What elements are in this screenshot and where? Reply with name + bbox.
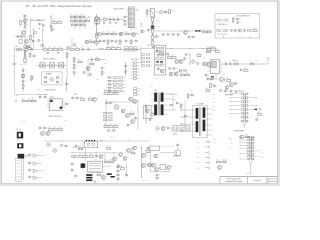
capacitor C141 — [124, 64, 129, 67]
svg-text:CN6: CN6 — [17, 138, 20, 140]
capacitor C166 — [43, 126, 48, 129]
optocoupler PC101 — [40, 64, 46, 67]
wire — [66, 78, 68, 91]
bridge D107 — [191, 59, 196, 64]
capacitor C174 — [255, 118, 260, 121]
diode D108 — [179, 69, 181, 71]
resistor R155 — [156, 64, 159, 66]
svg-text:GND: GND — [262, 157, 265, 159]
svg-text:12P: 12P — [214, 141, 216, 143]
capacitor C194 — [65, 144, 70, 147]
svg-text:C105: C105 — [158, 26, 161, 28]
svg-text:GND: GND — [230, 143, 233, 145]
transistor Q108 — [86, 67, 92, 71]
svg-text:C1 C2 C3 C4 C5: C1 C2 C3 C4 C5 — [217, 34, 227, 36]
wire — [71, 38, 73, 47]
wire — [155, 30, 212, 32]
resistor R149 — [31, 76, 35, 80]
capacitor C109 — [108, 17, 111, 21]
transistor Q110 — [179, 60, 185, 64]
resistor R143 — [70, 47, 74, 50]
capacitor C124 — [172, 33, 177, 36]
node g — [46, 64, 49, 67]
svg-text:5V: 5V — [175, 99, 177, 101]
resistor R153 — [90, 62, 94, 65]
resistor R129 — [146, 10, 150, 14]
wire — [152, 17, 154, 44]
capacitor C200 — [157, 54, 162, 57]
op-amp U101 — [220, 78, 224, 82]
transistor Q109 — [175, 60, 181, 64]
transistor Q107 — [21, 74, 27, 78]
transistor Q133 — [127, 149, 133, 153]
resistor R105 — [28, 46, 32, 49]
resistor R194 — [131, 151, 135, 154]
svg-text:RY101: RY101 — [173, 134, 177, 136]
capacitor C178 — [106, 172, 111, 175]
svg-text:12V: 12V — [175, 94, 177, 96]
op-amp U105 — [33, 176, 37, 180]
diode D109 — [184, 69, 186, 71]
resistor R159 — [186, 73, 190, 76]
transistor Q116 — [230, 83, 236, 87]
resistor R192 — [105, 160, 109, 163]
transistor Q143 — [24, 59, 27, 63]
svg-text:VOUT: VOUT — [196, 157, 200, 159]
svg-text:D102 SW: D102 SW — [147, 45, 153, 47]
transistor Q125 — [93, 98, 99, 102]
capacitor C189 — [185, 53, 190, 56]
wire — [249, 159, 253, 165]
svg-text:R102: R102 — [157, 20, 160, 22]
resistor array RA104 — [141, 54, 144, 56]
resistor R119 — [96, 34, 100, 38]
ic IC103 — [49, 99, 62, 110]
resistor R188 — [222, 160, 226, 163]
bridge D112 — [155, 126, 160, 131]
wire — [96, 19, 124, 21]
diode D103 — [56, 76, 58, 78]
resistor R112 — [76, 19, 80, 22]
transistor Q138 — [148, 163, 154, 167]
resistor R136 — [232, 18, 236, 22]
resistor R109 — [76, 15, 80, 18]
wire — [249, 97, 256, 99]
driver module M102 — [154, 45, 166, 75]
resistor R137 — [253, 28, 257, 31]
wire — [249, 108, 254, 110]
capacitor C150 — [229, 61, 232, 65]
transistor Q113 — [174, 72, 180, 76]
resistor R198 — [29, 53, 33, 57]
resistor R175 — [59, 127, 63, 130]
svg-text:VOUT: VOUT — [196, 142, 200, 144]
resistor R178 — [114, 91, 118, 94]
transistor Q141 — [154, 154, 160, 158]
resistor array RA102 — [114, 77, 118, 79]
wire — [74, 15, 76, 29]
capacitor C112 — [99, 39, 104, 42]
capacitor C133 — [81, 47, 84, 51]
resistor R132 — [152, 29, 156, 33]
wire — [168, 93, 174, 95]
capacitor C108 — [95, 40, 100, 43]
capacitor C163 — [184, 114, 189, 117]
resistor R191 — [90, 154, 94, 157]
resistor R146 — [112, 46, 116, 49]
inductor L103 — [195, 30, 197, 31]
capacitor C188 — [156, 49, 161, 52]
transistor Q144 — [85, 40, 91, 44]
capacitor C177 — [95, 154, 100, 157]
svg-text:VOUT: VOUT — [196, 147, 200, 149]
capacitor C139 — [83, 71, 88, 74]
resistor R195 — [97, 173, 101, 176]
capacitor C119 — [151, 22, 156, 25]
resistor R210 — [121, 166, 125, 169]
resistor R117 — [82, 23, 86, 26]
svg-text:R120: R120 — [88, 17, 92, 19]
capacitor C202 — [157, 68, 162, 71]
transformer T104 — [17, 143, 23, 148]
transistor Q130 — [113, 157, 119, 161]
capacitor C131 — [243, 29, 248, 32]
node j3 — [203, 56, 206, 59]
resistor R173 — [49, 127, 53, 130]
inductor L102 — [151, 26, 155, 27]
resistor R134 — [203, 30, 207, 33]
wire — [44, 140, 150, 142]
capacitor C101 — [23, 14, 28, 17]
svg-text:IC101 REG: IC101 REG — [131, 59, 138, 61]
transistor Q145 — [175, 150, 181, 156]
wire — [125, 62, 127, 76]
inductor L202 — [107, 173, 111, 175]
capacitor C191 — [90, 57, 93, 61]
resistor R186 — [246, 135, 250, 138]
capacitor C152 — [213, 84, 218, 87]
op-amp U103 — [33, 162, 37, 166]
module M201 — [150, 146, 160, 151]
capacitor C176 — [60, 144, 65, 147]
svg-text:12V: 12V — [212, 106, 214, 108]
transistor Q135 — [102, 176, 108, 180]
capacitor C186 — [33, 54, 38, 57]
capacitor C155 — [224, 89, 229, 92]
fuse F202 — [72, 155, 78, 158]
transformer T102 — [192, 106, 207, 137]
resistor R180 — [104, 124, 108, 127]
wire — [32, 28, 34, 50]
wire — [22, 159, 24, 180]
svg-text:GND: GND — [212, 110, 215, 112]
svg-text:INV-ON: INV-ON — [228, 137, 232, 139]
svg-text:F201: F201 — [17, 140, 20, 142]
svg-text:C208: C208 — [176, 70, 179, 72]
wire — [150, 171, 170, 173]
resistor R182 — [114, 124, 118, 127]
capacitor C103 — [32, 39, 37, 42]
resistor R209 — [107, 146, 111, 149]
svg-text:R215: R215 — [160, 62, 163, 64]
node c — [95, 29, 98, 32]
transistor Q101 — [23, 19, 29, 23]
fuse F102 — [95, 18, 100, 24]
capacitor C146 — [173, 67, 178, 70]
resistor R125 — [126, 32, 130, 35]
resistor R139 — [44, 47, 48, 50]
inductor L201 — [86, 174, 92, 176]
svg-text:IN: IN — [141, 26, 143, 28]
node b — [50, 28, 53, 31]
svg-text:DRIVE: DRIVE — [155, 78, 159, 80]
label sec — [168, 93, 175, 95]
resistor R114 — [86, 19, 90, 22]
resistor R181 — [109, 124, 113, 127]
capacitor C164 — [167, 126, 172, 129]
wire — [141, 146, 143, 178]
capacitor C193 — [240, 68, 245, 71]
transistor Q128 — [99, 155, 105, 159]
capacitor C144 — [196, 62, 201, 65]
svg-text:VOL: VOL — [228, 146, 231, 148]
resistor R197 — [24, 51, 28, 55]
capacitor C126 — [188, 35, 193, 38]
svg-text:IC103: IC103 — [50, 97, 54, 99]
fuse F104 — [217, 19, 222, 21]
capacitor C185 — [24, 55, 29, 58]
capacitor C151 — [211, 76, 214, 80]
transistor Q111 — [203, 62, 209, 66]
svg-text:NP-H201: NP-H201 — [21, 120, 26, 122]
svg-text:5VS: 5VS — [212, 98, 215, 100]
svg-text:CN1: CN1 — [135, 9, 138, 11]
capacitor C143 — [183, 57, 188, 60]
svg-text:P-ON: P-ON — [212, 94, 215, 96]
wire — [112, 49, 141, 51]
resistor R138 — [24, 47, 28, 50]
optocoupler PC102 — [49, 64, 55, 67]
bridge D104 — [49, 77, 54, 82]
transistor Q120 — [41, 132, 47, 136]
wire — [230, 93, 240, 95]
connector CN201 — [243, 94, 245, 121]
resistor R202 — [96, 57, 100, 60]
transistor Q104 — [132, 33, 138, 37]
resistor R122 — [103, 32, 107, 35]
resistor R185 — [258, 112, 262, 115]
ground — [47, 52, 49, 54]
capacitor C120 — [147, 28, 152, 31]
capacitor C165 — [39, 126, 44, 129]
diode D102 — [44, 76, 46, 78]
resistor R172 — [180, 104, 184, 108]
transistor Q127 — [218, 166, 224, 170]
wire — [215, 73, 217, 79]
resistor R183 — [81, 97, 85, 100]
relay RL101 — [150, 9, 154, 17]
wire — [106, 101, 138, 103]
wire — [126, 163, 128, 178]
wire — [14, 49, 112, 51]
wire — [14, 94, 48, 96]
resistor R150 — [73, 58, 77, 62]
svg-text:DIM: DIM — [230, 140, 232, 142]
op-amp U102 — [33, 154, 37, 158]
resistor R161 — [212, 47, 216, 50]
resistor R174 — [54, 127, 58, 130]
fuse F105 — [224, 19, 229, 21]
resistor R103 — [17, 35, 22, 38]
capacitor C162 — [176, 101, 181, 104]
capacitor C127 — [192, 35, 197, 38]
resistor R171 — [145, 106, 149, 110]
svg-text:GND: GND — [212, 102, 215, 104]
transistor Q123 — [126, 114, 132, 118]
fuse F109 — [16, 48, 22, 51]
resistor R157 — [172, 55, 176, 58]
svg-text:GND: GND — [142, 180, 145, 182]
resistor R199 — [160, 52, 164, 55]
capacitor C123 — [167, 33, 172, 36]
capacitor C171 — [127, 123, 132, 126]
resistor R184 — [89, 97, 93, 100]
transistor Q119 — [161, 127, 167, 131]
wire — [267, 58, 269, 64]
resistor R124 — [113, 32, 117, 35]
inductor L104 — [98, 48, 104, 49]
node i — [225, 159, 228, 162]
resistor R177 — [109, 91, 113, 94]
transistor Q129 — [81, 163, 86, 168]
capacitor C115 — [115, 40, 120, 43]
capacitor C106 — [42, 24, 47, 27]
transistor Q131 — [119, 153, 125, 157]
resistor R200 — [197, 53, 201, 56]
svg-text:C410: C410 — [16, 95, 19, 97]
resistor R145 — [107, 46, 111, 49]
bridge D101 — [159, 10, 164, 15]
node a — [19, 46, 22, 49]
svg-text:(TaeTech): (TaeTech) — [253, 180, 261, 182]
fuse F103 — [96, 33, 102, 36]
resistor R130 — [169, 10, 173, 14]
resistor R147 — [117, 46, 121, 49]
svg-text:R611: R611 — [128, 138, 131, 140]
capacitor C201 — [161, 54, 166, 57]
capacitor C179 — [71, 162, 76, 165]
resistor R163 — [250, 62, 254, 65]
resistor R126 — [107, 40, 111, 44]
transistor Q103 — [119, 32, 125, 36]
wire — [88, 59, 106, 61]
resistor R141 — [54, 47, 58, 50]
resistor R167 — [22, 99, 26, 102]
svg-text:D501: D501 — [255, 60, 258, 62]
svg-text:CN103 POWER: CN103 POWER — [114, 9, 124, 11]
svg-text:VOUT: VOUT — [196, 152, 200, 154]
top bits — [71, 96, 76, 99]
resistor R110 — [81, 15, 85, 18]
wire — [70, 152, 118, 154]
resistor R164 — [207, 77, 211, 80]
resistor R196 — [66, 53, 70, 57]
capacitor C196 — [75, 144, 80, 147]
capacitor C107 — [95, 22, 100, 25]
capacitor C170 — [134, 116, 139, 119]
capacitor C195 — [147, 146, 152, 149]
capacitor C161 — [149, 118, 154, 121]
capacitor C190 — [101, 66, 106, 69]
capacitor C156 — [230, 89, 235, 92]
resistor R140 — [49, 47, 53, 50]
resistor R208 — [79, 147, 83, 150]
wire — [140, 48, 154, 50]
ic IC102 — [210, 60, 219, 73]
resistor R179 — [130, 112, 134, 115]
capacitor C160 — [65, 102, 70, 105]
transistor Q112 — [169, 72, 175, 76]
capacitor C137 — [13, 62, 18, 65]
transistor Q124 — [131, 120, 137, 124]
svg-text:IC301: IC301 — [96, 79, 100, 81]
transformer T105 — [18, 154, 25, 159]
capacitor C116 — [125, 39, 130, 42]
wire — [189, 53, 191, 67]
bridge D113 — [46, 142, 51, 147]
resistor R204 — [244, 68, 248, 71]
wire — [50, 15, 52, 32]
transistor Q139 — [152, 163, 158, 167]
wire — [140, 30, 144, 32]
capacitor C154 — [219, 89, 224, 92]
capacitor C173 — [112, 129, 117, 132]
resistor network RN101 — [125, 47, 129, 49]
capacitor C181 — [176, 143, 181, 146]
capacitor C135 — [22, 69, 27, 72]
bridge D114 — [53, 148, 58, 153]
resistor R189 — [79, 154, 83, 157]
svg-text:CN5: CN5 — [214, 138, 217, 140]
wire — [24, 14, 26, 46]
wire — [243, 121, 247, 126]
transformer T101 — [157, 93, 159, 116]
capacitor C136 — [22, 80, 27, 83]
module M101 — [42, 72, 62, 85]
transistor Q142 — [167, 166, 173, 170]
capacitor C149 — [224, 61, 227, 65]
resistor R168 — [28, 99, 32, 102]
capacitor C117 — [135, 39, 140, 42]
capacitor C192 — [191, 93, 196, 96]
transistor Q137 — [142, 164, 148, 168]
resistor R201 — [101, 71, 105, 75]
wire — [117, 164, 119, 182]
svg-text:C313: C313 — [190, 90, 193, 92]
capacitor C111 — [116, 17, 119, 21]
resistor R118 — [96, 17, 100, 21]
resistor R135 — [207, 30, 211, 33]
capacitor C110 — [112, 17, 115, 21]
capacitor C118 — [164, 10, 169, 13]
svg-text:Q305: Q305 — [20, 64, 23, 66]
svg-text:R310: R310 — [104, 62, 107, 64]
resistor R113 — [81, 19, 85, 22]
resistor R156 — [168, 55, 172, 58]
capacitor C142 — [124, 70, 129, 73]
resistor R170 — [151, 112, 155, 115]
resistor R203 — [187, 94, 191, 98]
